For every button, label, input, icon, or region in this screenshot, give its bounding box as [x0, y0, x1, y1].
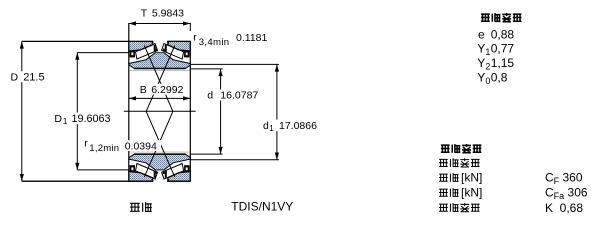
- right face line: [189, 41, 191, 181]
- cage large end bottom-right: [184, 165, 189, 172]
- dimension d extension lines: [190, 68, 222, 70]
- dimension D1 extension lines: [77, 52, 129, 54]
- dimension T line: [129, 23, 191, 25]
- svg-text:D21.5: D21.5: [11, 71, 45, 83]
- svg-text:B6.2992: B6.2992: [140, 84, 184, 96]
- groove corner right (bottom): [167, 179, 169, 182]
- row radial [kN] CF 360: [439, 174, 448, 181]
- heading calculation factors (4 CJK chars): [481, 14, 490, 21]
- dimension D1 line: [76, 53, 78, 170]
- bearing axis centerline: [124, 110, 196, 112]
- heading comparison data (4 CJK chars): [441, 145, 450, 152]
- bore line (top, faint): [129, 70, 190, 72]
- svg-text:0,77: 0,77: [491, 41, 515, 55]
- svg-text:3,4min: 3,4min: [199, 37, 230, 48]
- dimension B line: [129, 97, 191, 99]
- label design (2 CJK chars): [130, 203, 140, 211]
- top edge (OD) line + D extension top: [22, 40, 153, 42]
- svg-text:1,15: 1,15: [491, 56, 515, 70]
- tapered roller top-left: [136, 44, 158, 60]
- svg-text:0.0394: 0.0394: [125, 140, 157, 152]
- bottom edge (OD) line + D extension bottom: [22, 180, 153, 182]
- oil groove and hole (top center): [153, 40, 167, 52]
- left face line + T extension: [128, 23, 130, 181]
- T extension right: [189, 23, 191, 31]
- label D 21.5: [9, 71, 47, 82]
- label load ratings (4 CJK chars): [439, 159, 448, 166]
- contact line bottom-left row: [144, 111, 173, 177]
- label d1 17.0866: [262, 120, 319, 132]
- svg-text:0.1181: 0.1181: [236, 32, 267, 44]
- cage foot top-right: [163, 49, 165, 52]
- contact line top-left row: [144, 46, 173, 112]
- svg-text:CFa 306: CFa 306: [545, 186, 588, 202]
- svg-text:0,88: 0,88: [491, 28, 515, 42]
- cage foot bottom-right: [163, 171, 165, 174]
- svg-text:e: e: [478, 28, 485, 42]
- svg-text:r: r: [84, 138, 88, 150]
- inner ring bore edge (bottom): [134, 153, 186, 155]
- outer ring cup (bottom): [129, 171, 191, 181]
- row thrust factor K 0,68: [439, 204, 448, 211]
- svg-text:0,8: 0,8: [491, 70, 508, 84]
- row axial [kN] CFa 306: [439, 189, 448, 196]
- groove corner left (top): [152, 41, 154, 44]
- label D1 19.6063: [54, 113, 112, 125]
- svg-text:CF 360: CF 360: [545, 171, 583, 187]
- svg-text:r: r: [193, 31, 197, 43]
- bore line (bottom, faint): [129, 151, 190, 153]
- dimension d line: [220, 69, 222, 154]
- cage large end bottom-left: [130, 165, 135, 172]
- inner rings (top): [129, 53, 191, 69]
- groove corner left (bottom): [152, 179, 154, 182]
- oil groove and hole (bottom center): [153, 170, 167, 182]
- contact line top-right row: [146, 46, 175, 112]
- cage large end top-right: [184, 51, 189, 58]
- label d 16.0787: [206, 89, 260, 100]
- outer ring cup (top): [129, 41, 191, 51]
- cage small end bar bottom-left: [154, 171, 156, 178]
- svg-text:TDIS/N1VY: TDIS/N1VY: [231, 200, 293, 214]
- svg-text:1,2min: 1,2min: [89, 143, 119, 154]
- cup raceway edge redraw (top): [129, 45, 153, 52]
- cage foot top-left: [156, 49, 158, 52]
- tapered roller bottom-right: [162, 164, 184, 180]
- svg-text:K 0,68: K 0,68: [545, 201, 583, 215]
- cage foot bottom-left: [156, 171, 158, 174]
- svg-text:[kN]: [kN]: [461, 185, 482, 199]
- cup raceway edge redraw (bottom): [129, 171, 153, 178]
- cage large end top-left: [130, 51, 135, 58]
- cage small end bar top-right: [165, 45, 167, 52]
- groove corner right (top): [167, 41, 169, 44]
- dimension D line: [21, 41, 23, 181]
- tapered roller top-right: [162, 44, 184, 60]
- dimension d1 line: [276, 64, 278, 159]
- cage small end bar bottom-right: [165, 171, 167, 178]
- inner ring bore edge (top): [134, 68, 186, 70]
- inner rings (bottom): [129, 154, 191, 170]
- contact line bottom-right row: [146, 111, 175, 177]
- tapered roller bottom-left: [136, 164, 158, 180]
- cage small end bar top-left: [154, 45, 156, 52]
- dimension d1 extension lines: [190, 63, 279, 65]
- label B 6.2992: [139, 84, 187, 95]
- svg-text:[kN]: [kN]: [461, 170, 482, 184]
